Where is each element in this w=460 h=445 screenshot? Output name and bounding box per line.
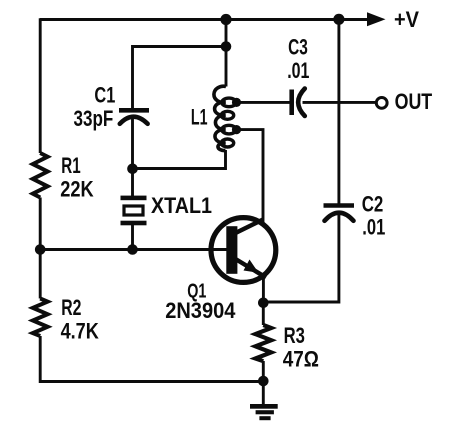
svg-text:4.7K: 4.7K <box>61 319 99 344</box>
svg-text:2N3904: 2N3904 <box>165 298 236 323</box>
junction dot L1 tap1 <box>232 98 241 107</box>
ground bar 1 <box>250 404 278 409</box>
crystal XTAL1 plate top <box>121 196 147 201</box>
transistor Q1 base bar <box>226 226 237 274</box>
wire +V top rail <box>40 18 369 21</box>
transistor Q1 body circle <box>211 218 276 283</box>
wire R2 bottom to bottom rail <box>40 336 263 382</box>
junction dot node B (R1/R2/base) <box>35 244 46 255</box>
terminal OUT circle <box>376 98 387 109</box>
junction dot L1 tap2 <box>232 125 241 134</box>
wire node B to R2 top <box>39 250 42 299</box>
capacitor C1 plate top <box>119 108 149 113</box>
svg-text:OUT: OUT <box>395 89 433 114</box>
arrowhead +V <box>367 12 386 26</box>
wire L1 tap2 to collector <box>239 130 263 222</box>
wire C1 top link <box>133 47 227 109</box>
svg-text:C3: C3 <box>288 35 308 60</box>
junction dot rail/L1 <box>220 14 231 25</box>
wire C1 bottom to XTAL1 <box>131 116 134 196</box>
wire XTAL1 bottom to base wire <box>131 225 134 251</box>
svg-text:R1: R1 <box>61 153 80 178</box>
svg-text:C1: C1 <box>94 83 115 108</box>
inductor L1 winding arcs <box>214 86 226 150</box>
junction dot C1/L1/XTAL node <box>127 164 138 175</box>
wire emitter to R3 <box>262 274 265 304</box>
resistor R3 <box>255 325 271 361</box>
wire L1 tap1 to C3 <box>239 101 290 104</box>
svg-text:.01: .01 <box>287 58 309 83</box>
junction dot C1 link corner <box>221 41 232 52</box>
svg-text:R3: R3 <box>284 323 305 348</box>
wire R3 bottom to ground node <box>262 361 265 382</box>
transistor Q1 emitter line <box>236 259 267 278</box>
resistor R2 <box>33 299 48 337</box>
inductor L1 loop 4 <box>221 139 233 147</box>
ground bar 2 <box>256 410 274 414</box>
junction dot ground node <box>258 376 269 387</box>
wire R3 top lead <box>262 302 265 325</box>
ground bar 3 <box>259 416 270 420</box>
wire base (node B to Q1 base) <box>40 248 227 251</box>
capacitor C3 plate left <box>289 90 294 116</box>
wire R1 bottom to node B <box>39 198 42 252</box>
capacitor C2 plate bottom (curved) <box>325 213 354 221</box>
svg-text:L1: L1 <box>191 105 208 130</box>
inductor L1 loop 2 <box>221 111 233 119</box>
svg-text:22K: 22K <box>60 177 93 202</box>
junction dot emitter node <box>258 298 269 309</box>
wire left branch vertical (top to R1) <box>39 18 42 153</box>
svg-text:R2: R2 <box>61 295 81 320</box>
wire ground lead <box>262 381 265 405</box>
capacitor C3 plate right (curved) <box>298 89 305 117</box>
resistor R1 <box>33 153 48 198</box>
transistor Q1 emitter arrowhead <box>244 260 259 273</box>
transistor Q1 collector line <box>236 220 264 234</box>
junction dot rail/C2 branch <box>333 14 344 25</box>
wire +V branch to C2 <box>337 18 340 204</box>
wire L1 top vertical <box>225 20 228 87</box>
svg-text:C2: C2 <box>362 192 384 217</box>
wire C3 to OUT terminal <box>303 101 377 104</box>
crystal XTAL1 body <box>124 206 143 215</box>
svg-text:+V: +V <box>394 7 419 32</box>
svg-text:XTAL1: XTAL1 <box>151 193 212 218</box>
capacitor C2 plate top <box>324 203 355 208</box>
crystal XTAL1 plate bottom <box>121 221 147 226</box>
wire L1 bottom to C1/XTAL node <box>133 150 226 169</box>
capacitor C1 plate bottom (curved) <box>120 117 148 124</box>
svg-text:33pF: 33pF <box>74 106 114 131</box>
inductor L1 loop 1 <box>222 98 236 107</box>
wire C2 bottom to emitter node <box>263 213 339 303</box>
inductor L1 loop 3 <box>222 125 236 134</box>
svg-text:.01: .01 <box>362 214 385 239</box>
junction dot XTAL1 bottom <box>127 244 138 255</box>
svg-text:47Ω: 47Ω <box>283 347 319 372</box>
